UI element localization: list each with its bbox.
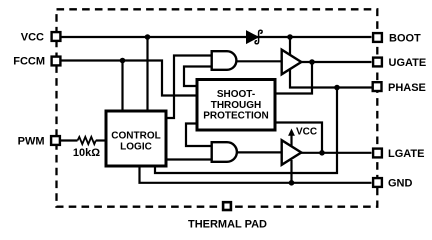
junction dot PHASE [334, 85, 340, 91]
wire VCC junction down to control logic [146, 37, 148, 111]
svg-text:PWM: PWM [18, 136, 45, 148]
junction dot VCC rail / control logic [145, 34, 151, 40]
wire BOOT junction down into UGATE driver [289, 37, 291, 55]
svg-text:LGATE: LGATE [388, 148, 424, 160]
svg-text:FCCM: FCCM [13, 56, 45, 68]
wire shoot-through protection to upper AND input 2 [184, 67, 212, 87]
wire UGATE output to pin [301, 61, 372, 63]
pin BOOT [373, 32, 421, 44]
buffer UGATE driver [282, 50, 302, 75]
wire VCC top rail to BOOT [58, 36, 372, 38]
svg-text:BOOT: BOOT [389, 32, 421, 44]
pin GND [373, 178, 412, 190]
pin LGATE [373, 148, 424, 160]
wire upper AND output to UGATE driver [236, 60, 282, 62]
junction dot LGATE sense [319, 150, 325, 156]
svg-text:CONTROL: CONTROL [111, 130, 160, 141]
svg-text:LOGIC: LOGIC [120, 142, 152, 153]
wire resistor to control logic [96, 139, 106, 141]
pin VCC [21, 32, 61, 44]
svg-text:10kΩ: 10kΩ [73, 147, 100, 159]
wire UGATE sense to shoot-through protection [275, 62, 312, 94]
AND gate upper (UGATE) [212, 51, 237, 70]
svg-text:GND: GND [388, 178, 413, 190]
wire UGATE driver return to PHASE rail [290, 68, 372, 88]
VCC supply arrow into LGATE driver [288, 126, 317, 146]
svg-text:SHOOT-: SHOOT- [217, 89, 255, 100]
wire lower AND output to LGATE driver [236, 151, 282, 153]
svg-text:PROTECTION: PROTECTION [203, 111, 269, 122]
junction dot BOOT rail / UGATE driver supply [287, 34, 293, 40]
svg-text:THERMAL PAD: THERMAL PAD [188, 219, 267, 231]
block CONTROL LOGIC [106, 111, 166, 166]
thermal pad [188, 202, 267, 230]
svg-text:UGATE: UGATE [389, 57, 427, 69]
diode D1 bootstrap Schottky [247, 30, 263, 44]
svg-text:THROUGH: THROUGH [211, 100, 262, 111]
junction dot FCCM / control logic [120, 58, 126, 64]
svg-text:PHASE: PHASE [388, 82, 426, 94]
wire control logic to upper AND input 1 [167, 56, 212, 119]
pin PHASE [373, 82, 426, 94]
wire LGATE output to pin [301, 152, 372, 154]
wire LGATE driver return to GND rail [290, 160, 292, 183]
wire control logic to lower AND input 2 [167, 158, 212, 160]
AND gate lower (LGATE) [212, 142, 237, 162]
wire GND rail [140, 166, 372, 183]
wire LGATE sense to shoot-through protection [275, 123, 322, 153]
resistor R1 [78, 137, 96, 144]
wire shoot-through protection to lower AND input 1 [186, 124, 212, 147]
svg-text:VCC: VCC [21, 32, 44, 44]
pin PWM [18, 136, 60, 148]
block SHOOT-THROUGH PROTECTION [197, 80, 275, 131]
junction dot UGATE sense [309, 59, 315, 65]
wire FCCM junction down to control logic [121, 61, 123, 111]
pin FCCM [13, 56, 60, 68]
wire PHASE feedback down and left to control logic [155, 88, 337, 174]
junction dot GND [289, 180, 295, 186]
pin UGATE [373, 57, 426, 69]
buffer LGATE driver [282, 140, 302, 165]
IC boundary dashed border [57, 9, 378, 206]
wire PWM line pin to resistor [58, 139, 78, 141]
svg-text:VCC: VCC [296, 126, 317, 137]
wire FCCM line [58, 61, 196, 96]
